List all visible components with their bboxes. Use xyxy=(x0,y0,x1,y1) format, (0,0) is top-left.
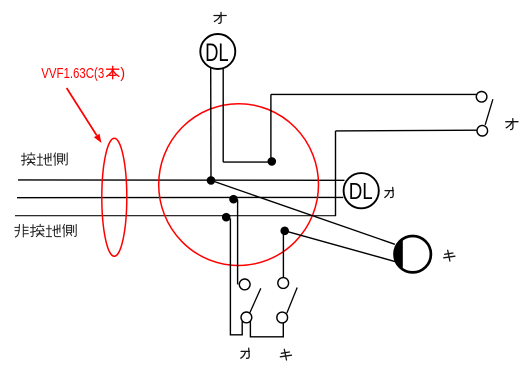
地 xyxy=(46,225,60,237)
node 2: on line 2 (switch カ feed) xyxy=(229,195,238,204)
wire: up to switch オ top wire xyxy=(270,94,272,161)
switch カ top contact xyxy=(239,279,250,290)
wire: node B down, then to switch カ bottom xyxy=(230,219,242,335)
svg-text:): ) xyxy=(120,66,125,82)
label カ below switch xyxy=(241,348,250,358)
wire: switch オ bottom contact to vertical xyxy=(336,129,477,132)
label オ above DL xyxy=(214,12,226,23)
switch キ blade xyxy=(287,288,297,314)
wire: ground-side horizontal line 1 xyxy=(18,179,345,181)
svg-text:DL: DL xyxy=(349,178,373,204)
wire: diagonal from node 1 to lamp キ xyxy=(211,180,395,244)
node 1: on line 1 (DL オ neutral) xyxy=(207,176,216,185)
地 xyxy=(37,153,51,165)
wire: DL オ left lead down to node on line 1 xyxy=(210,68,212,181)
wire: switch カ bottom to switch キ bottom xyxy=(250,321,283,337)
downlight DL (オ) circle xyxy=(200,34,235,69)
switch オ bottom contact xyxy=(477,125,488,136)
接 xyxy=(21,153,35,165)
label キ right of lamp xyxy=(444,250,455,261)
wire: middle horizontal line 2 xyxy=(17,196,343,198)
junction box (red circle) xyxy=(159,104,319,266)
switch キ bottom contact xyxy=(277,312,288,323)
node: lamp キ / switch キ junction xyxy=(280,227,289,236)
svg-text:VVF1.63C(3: VVF1.63C(3 xyxy=(41,66,104,82)
label カ right of DL xyxy=(385,187,394,197)
wire: node 2 down to switch カ top contact xyxy=(237,200,239,285)
label 接地側 (ground side) xyxy=(21,153,67,166)
wire: horizontal to junction node xyxy=(223,161,271,163)
svg-text:DL: DL xyxy=(205,40,229,67)
kanji 本 xyxy=(107,66,119,79)
wire: diagonal from node to lamp キ bottom xyxy=(285,231,398,262)
downlight DL (カ) circle xyxy=(344,173,379,208)
接 xyxy=(30,224,44,236)
switch オ top contact xyxy=(476,92,487,103)
wire: non-ground-side horizontal line 3 (gray) xyxy=(15,215,336,217)
lamp キ (wall light symbol) xyxy=(395,236,431,272)
switch カ blade xyxy=(250,288,261,313)
wire: DL オ right lead down xyxy=(222,68,224,162)
cable sheath (red ellipse) xyxy=(102,138,127,256)
wire: switch キ top contact up to node xyxy=(282,231,284,278)
switch カ bottom contact xyxy=(241,312,252,323)
非 xyxy=(15,224,29,237)
label オ right of switch xyxy=(506,119,518,130)
wire: vertical down to line 3 xyxy=(335,131,337,216)
wire: horizontal to switch オ top contact xyxy=(271,93,476,95)
switch オ blade xyxy=(485,99,493,125)
label キ below switch xyxy=(280,349,291,360)
red arrow from label to sheath xyxy=(67,88,102,143)
red label VVF1.63C(3本) xyxy=(41,66,125,82)
switch キ top contact xyxy=(278,278,289,289)
label 非接地側 (non-ground side) xyxy=(15,224,76,237)
node B: on line 3 (live to switches) xyxy=(222,213,231,222)
node: junction of DL オ and switch オ wires xyxy=(268,157,277,166)
側 xyxy=(54,153,67,166)
側 xyxy=(63,224,76,237)
